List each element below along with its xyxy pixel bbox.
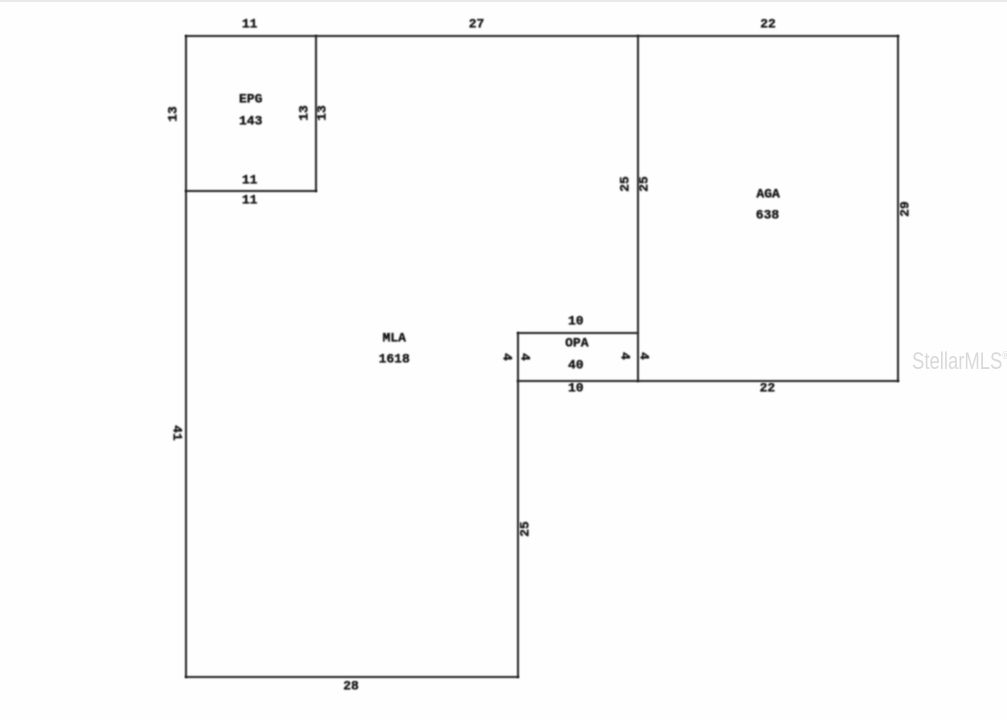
area 1618 (379, 352, 410, 367)
room label AGA (756, 186, 779, 201)
wall: AGA left vertical (637, 35, 639, 381)
dim 4 (inside OPA left) (518, 353, 533, 361)
watermark StellarMLS (912, 348, 1007, 376)
area 40 (568, 358, 584, 373)
dim 25 (right of AGA wall) (637, 176, 652, 192)
dim 41 (left wall) (170, 425, 185, 441)
wall: MLA/OPA right vertical (517, 332, 519, 679)
dim 11 (below EPG bottom) (242, 192, 258, 207)
dim 28 (bottom wall) (343, 678, 359, 693)
dim 10 (below OPA) (568, 381, 584, 396)
wall: bottom horizontal (185, 676, 520, 678)
dim 27 (top middle) (469, 16, 485, 31)
dim 22 (AGA bottom) (760, 381, 776, 396)
dim 4 (outside OPA right) (636, 352, 651, 360)
dim 25 (left of AGA wall) (617, 176, 632, 192)
area 143 (239, 113, 262, 128)
dim 11 (above EPG bottom) (242, 173, 258, 188)
dim 13 (left of left wall) (166, 106, 181, 122)
dim 29 (right wall AGA) (897, 201, 912, 217)
wall: OPA/AGA bottom horizontal (517, 380, 899, 382)
area 638 (756, 208, 779, 223)
dim 13 (right of EPG right wall) (315, 105, 330, 121)
room label MLA (382, 330, 405, 345)
room label EPG (239, 91, 262, 106)
dim 25 (MLA right wall) (517, 522, 532, 538)
dim 13 (inside EPG right wall) (297, 105, 312, 121)
faint top edge band (0, 0, 1007, 2)
dim 4 (inside OPA right) (617, 352, 632, 360)
wall: left main vertical (185, 35, 187, 678)
wall: AGA right vertical (897, 35, 899, 381)
dim 22 (AGA top) (760, 16, 776, 31)
room label OPA (565, 336, 588, 351)
dim 10 (above OPA) (568, 314, 584, 329)
wall: top horizontal (full width of plan) (185, 35, 900, 37)
wall: OPA top horizontal (517, 332, 638, 334)
wall: EPG bottom horizontal (185, 190, 317, 192)
dim 4 (outside OPA left) (499, 353, 514, 361)
wall: EPG right vertical (315, 35, 317, 191)
dim 11 (EPG top) (242, 16, 258, 31)
